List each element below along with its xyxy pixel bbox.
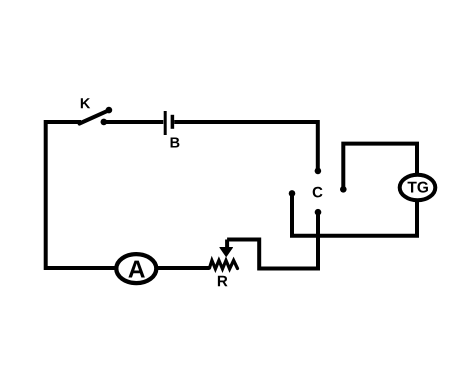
ammeter label A: [128, 261, 144, 278]
rheostat wiper arrowhead: [220, 248, 233, 257]
node C bottom terminal dot: [315, 209, 322, 216]
wire top segment between switch and battery: [104, 120, 164, 124]
node C left terminal dot: [289, 190, 296, 197]
label K: [81, 98, 90, 108]
wire from node C bottom dot down, left, up to wiper: [227, 212, 318, 268]
wire rheostat wiper arrow shaft: [225, 240, 229, 251]
battery B short plate: [171, 115, 175, 129]
label B: [171, 138, 180, 148]
label C: [313, 187, 323, 198]
node C top terminal dot: [315, 168, 322, 175]
switch K lever: [80, 110, 109, 123]
rheostat R zigzag: [210, 260, 238, 269]
battery B long plate: [164, 111, 167, 135]
wire from node C left dot down and right to TG bottom: [292, 193, 417, 235]
wire top segment battery to right corner and down: [174, 122, 318, 171]
label R: [218, 276, 228, 286]
wire left loop: top-left corner, left vertical, bottom wire: [46, 122, 210, 268]
switch K moving contact dot: [106, 107, 113, 114]
node C right terminal dot: [340, 186, 347, 193]
galvanometer label TG: [408, 182, 428, 193]
ammeter A: [116, 254, 156, 283]
galvanometer TG: [400, 175, 436, 201]
wire from node C right dot up, right, down to TG top: [343, 144, 417, 190]
switch K fixed contact dot: [101, 119, 108, 126]
